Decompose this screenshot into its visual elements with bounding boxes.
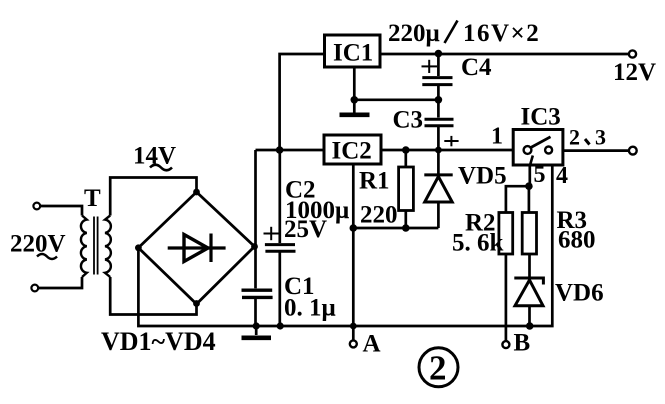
wire: bridge plus up to main rail	[254, 150, 257, 247]
junction: gnd link at C4/C3	[435, 96, 443, 104]
wire: IC2 common down to node A	[352, 164, 355, 340]
wire: IC1 output to 12V terminal	[380, 53, 629, 56]
svg-text:VD6: VD6	[555, 280, 604, 307]
wire: VD6 bottom to rail	[528, 306, 531, 326]
wire: IC1 ground pin	[353, 67, 356, 100]
svg-text:680: 680	[558, 227, 596, 254]
wire: pin5 node to R2 top	[506, 186, 529, 212]
IC3 switch lever	[531, 137, 551, 148]
svg-text:B: B	[514, 330, 531, 357]
svg-text:4: 4	[556, 163, 568, 189]
junction: C1/ground on rail	[253, 322, 260, 329]
resistor R2 body	[499, 213, 513, 255]
junction: C2 on rail	[277, 322, 284, 329]
transformer T primary winding	[81, 216, 87, 278]
label pins 2,3	[569, 124, 606, 149]
junction: C3/VD5 on mid rail	[435, 147, 442, 154]
junction: common link at IC2 line	[350, 224, 358, 232]
capacitor C3 plus sign	[444, 136, 458, 146]
svg-text:T: T	[84, 185, 101, 212]
junction: pin5 node	[525, 182, 533, 190]
junction: main rail 4-way at x=279.5	[276, 146, 284, 154]
svg-text:A: A	[363, 331, 381, 358]
terminal: node B	[502, 341, 509, 348]
svg-text:1: 1	[491, 124, 503, 150]
capacitor C4 plus sign	[422, 60, 438, 73]
capacitor C4 plates	[422, 78, 452, 85]
resistor R3 body	[522, 213, 536, 255]
wire: C4 bottom to gnd wire	[437, 86, 440, 100]
wire: C2 branch down	[278, 150, 281, 243]
svg-text:0. 1μ: 0. 1μ	[284, 295, 336, 322]
svg-text:VD5: VD5	[458, 163, 507, 190]
node: bridge left vertex	[135, 244, 142, 251]
terminal: IC3 output	[629, 147, 637, 155]
wire: R2 bottom through rail to node B	[505, 254, 508, 341]
IC1 box	[325, 35, 381, 67]
IC3 switch contacts	[524, 146, 553, 154]
zener diode VD6	[514, 278, 543, 306]
junction: VD6 on rail	[526, 322, 534, 330]
svg-text:2: 2	[569, 124, 580, 149]
capacitor C3 plates	[425, 119, 454, 126]
wire: bridge minus to ground rail (bottom rail) and up to IC3 pin4	[138, 165, 552, 326]
terminal: AC input top	[33, 203, 40, 210]
svg-text:3: 3	[595, 124, 606, 149]
svg-text:IC3: IC3	[521, 104, 561, 131]
wire: C4 branch down	[437, 54, 440, 76]
wire: common link R1/VD5	[353, 227, 438, 230]
wire: pin5 node to R3 top	[528, 186, 531, 212]
capacitor C2 plus sign	[264, 227, 280, 240]
svg-text:IC2: IC2	[332, 138, 372, 165]
node: bridge right vertex	[251, 243, 258, 250]
svg-text:5: 5	[534, 162, 546, 188]
svg-text:12V: 12V	[613, 59, 656, 86]
svg-text:220V: 220V	[10, 231, 66, 258]
svg-text:220μ: 220μ	[388, 20, 440, 47]
wire: AC input bottom lead	[38, 277, 82, 288]
label 220u/16Vx2	[388, 20, 540, 47]
svg-text:IC1: IC1	[333, 40, 373, 67]
wire: C2 to bottom rail	[278, 253, 281, 327]
terminal: AC input bottom	[31, 285, 38, 292]
svg-text:25V: 25V	[284, 216, 327, 243]
label 220V	[10, 231, 66, 260]
terminal: 12V output	[629, 50, 636, 57]
wire: R3 bottom to VD6	[528, 254, 531, 277]
resistor R1 body	[399, 167, 414, 211]
svg-text:2: 2	[429, 349, 447, 388]
svg-text:220: 220	[360, 202, 398, 229]
wire: secondary bottom to bridge AC node	[110, 277, 196, 315]
wire: C1 branch down from bridge plus	[254, 247, 257, 288]
wire: C1 to bottom rail	[254, 299, 257, 326]
terminal: node A	[350, 340, 357, 347]
wire: R1 top lead	[404, 150, 407, 167]
svg-text:5. 6k: 5. 6k	[452, 230, 504, 257]
wire: mid rail IC2 to IC3	[381, 149, 513, 152]
wire: IC3 output to terminal	[563, 149, 629, 152]
wire: R1 bottom lead	[404, 211, 407, 229]
transformer T core	[94, 217, 98, 275]
wire: VD5 bottom lead	[437, 202, 440, 228]
svg-text:C3: C3	[393, 107, 424, 134]
junction: R1 top	[402, 146, 410, 154]
IC3 pin5 inner stub	[530, 156, 533, 167]
capacitor C1 plates	[242, 290, 273, 297]
node: bridge bottom vertex	[193, 300, 200, 307]
transformer T secondary winding	[105, 216, 111, 278]
junction: node A line on bottom rail	[350, 323, 357, 330]
wire: junction up to IC1 input	[280, 54, 325, 150]
wire: main mid rail (left of IC2)	[256, 149, 325, 152]
IC3 box	[513, 130, 563, 166]
ground symbol under IC1	[340, 100, 370, 115]
bridge inner diode symbol	[168, 234, 226, 263]
wire: IC3 pin5 down	[528, 165, 531, 186]
wire: AC input top lead	[40, 206, 82, 216]
junction: gnd link at IC1 pin	[351, 96, 359, 104]
svg-text:VD1~VD4: VD1~VD4	[101, 327, 216, 356]
bridge rectifier VD1-VD4 diamond	[138, 192, 254, 304]
wire: C3 bottom to mid rail	[437, 127, 440, 150]
capacitor C2 plates	[265, 245, 296, 252]
svg-text:R1: R1	[359, 168, 390, 195]
svg-text:16V×2: 16V×2	[463, 20, 540, 47]
node: bridge top vertex	[193, 189, 200, 196]
label 14V	[133, 143, 176, 171]
wire: secondary top to bridge AC node	[110, 178, 196, 216]
wire: horizontal gnd link IC1 to C4/C3	[354, 98, 438, 101]
svg-text:C4: C4	[461, 54, 492, 81]
ground symbol at bottom rail	[242, 326, 272, 338]
wire: VD5 top lead	[437, 150, 440, 174]
wire: C3 branch down	[437, 100, 440, 118]
figure number circle 2	[419, 348, 458, 388]
diode VD5	[424, 175, 452, 202]
junction: top rail / C4	[435, 50, 443, 58]
IC2 box	[324, 135, 381, 164]
junction: R1 bottom	[402, 224, 410, 232]
